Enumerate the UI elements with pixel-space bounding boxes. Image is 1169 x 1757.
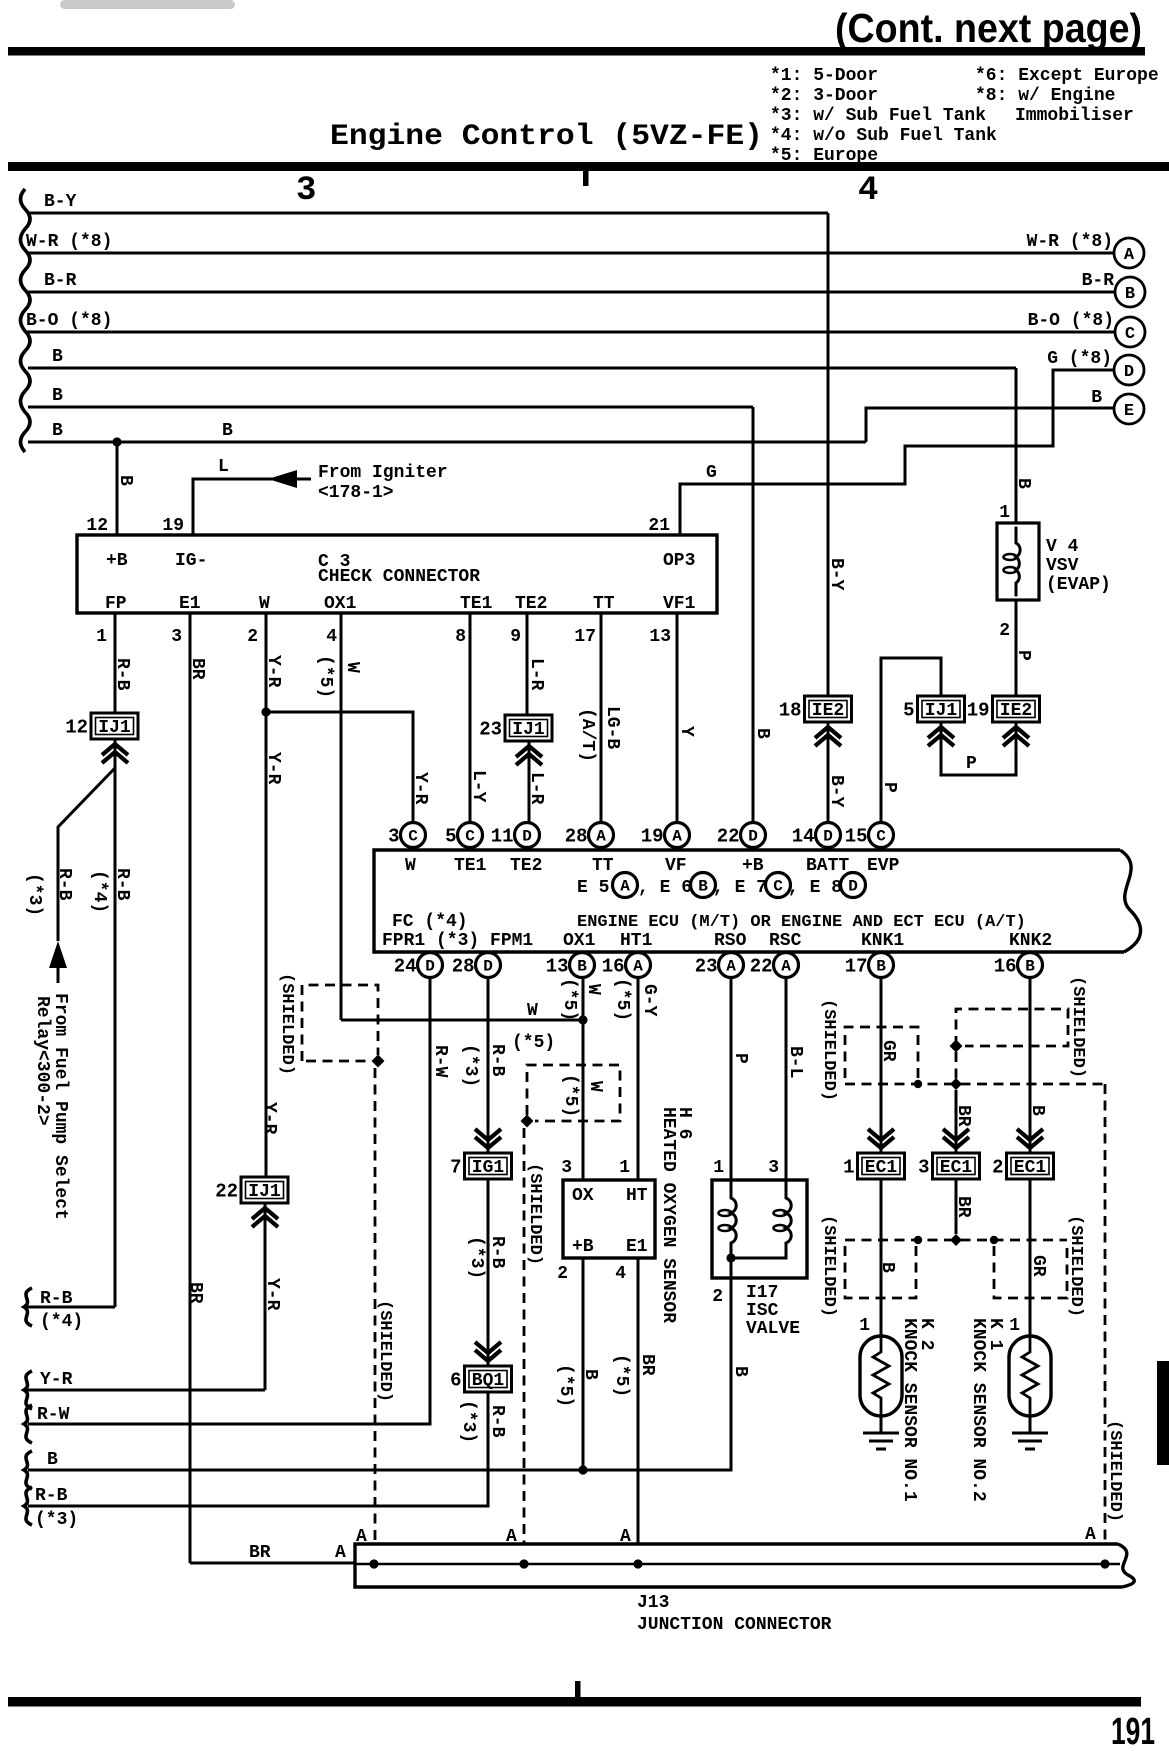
svg-text:TE2: TE2 bbox=[510, 856, 542, 876]
svg-text:Engine Control (5VZ-FE): Engine Control (5VZ-FE) bbox=[330, 120, 763, 154]
chevron of IJ1 pin 5 bbox=[928, 727, 954, 746]
svg-text:(*5): (*5) bbox=[612, 978, 632, 1021]
ECU box wavy right edge bbox=[1120, 850, 1141, 952]
svg-text:2: 2 bbox=[992, 1157, 1003, 1179]
svg-text:3: 3 bbox=[918, 1157, 929, 1179]
svg-text:KNK1: KNK1 bbox=[861, 931, 904, 951]
svg-text:TE1: TE1 bbox=[460, 594, 493, 614]
ECU pin 15 EVP bbox=[845, 823, 894, 848]
svg-text:B: B bbox=[730, 1366, 750, 1377]
svg-text:TT: TT bbox=[593, 594, 615, 614]
svg-text:D: D bbox=[483, 958, 493, 976]
svg-text:VF1: VF1 bbox=[663, 594, 696, 614]
svg-text:A: A bbox=[596, 828, 606, 846]
ECU pin 24 FPR1/FC bbox=[394, 953, 443, 978]
svg-text:C: C bbox=[465, 828, 475, 846]
wire B-R bus line 3 to node B bbox=[28, 291, 1115, 294]
svg-text:16: 16 bbox=[994, 956, 1017, 978]
svg-text:*1: 5-Door: *1: 5-Door bbox=[770, 66, 878, 86]
wire branch to ECU pin 3 W bbox=[266, 712, 413, 823]
connector IG1 (pin 7) bbox=[450, 1153, 511, 1179]
node E bbox=[1114, 394, 1144, 424]
svg-text:B-Y: B-Y bbox=[826, 558, 846, 591]
shield drain dashed line 2 to junction connector bbox=[523, 1128, 526, 1544]
svg-text:22: 22 bbox=[215, 1181, 238, 1203]
wire B-L from ECU 22 to ISC pin 3 bbox=[785, 978, 788, 1180]
wire TT to ECU bbox=[600, 613, 603, 823]
connector BQ1 (pin 6) bbox=[450, 1366, 511, 1392]
ECU pin E6 bbox=[691, 873, 716, 898]
svg-text:RSO: RSO bbox=[714, 931, 747, 951]
connector IJ1 (pin 23) bbox=[479, 715, 552, 741]
svg-text:A: A bbox=[633, 958, 643, 976]
svg-text:B-L: B-L bbox=[785, 1046, 805, 1078]
ECU pin E5 bbox=[613, 873, 638, 898]
svg-text:B: B bbox=[1027, 1105, 1047, 1116]
svg-text:EVP: EVP bbox=[867, 856, 900, 876]
junction inside ISC bbox=[726, 1253, 735, 1262]
shield outline around KNK1 wire upper (dashed) bbox=[845, 1027, 918, 1078]
wire B bus line 6 feeding ECU +B bbox=[28, 406, 753, 409]
svg-text:D: D bbox=[1124, 363, 1134, 382]
svg-text:24: 24 bbox=[394, 956, 417, 978]
shield bus dot c bbox=[914, 1236, 922, 1244]
svg-text:RSC: RSC bbox=[769, 931, 802, 951]
svg-text:(*5): (*5) bbox=[559, 978, 579, 1021]
knock sensor K1 body bbox=[1009, 1336, 1051, 1416]
svg-text:EC1: EC1 bbox=[865, 1158, 898, 1178]
wire R-B (*3) from ECU 28 to IG1 bbox=[487, 978, 490, 1153]
svg-text:+B: +B bbox=[106, 551, 128, 571]
svg-text:D: D bbox=[522, 828, 532, 846]
svg-text:B-R: B-R bbox=[44, 271, 77, 291]
shield outline around OX wire (dashed) bbox=[527, 1065, 620, 1121]
svg-text:2: 2 bbox=[999, 621, 1010, 641]
svg-text:B: B bbox=[1125, 285, 1135, 304]
resistor zigzag K2 bbox=[873, 1336, 889, 1416]
wire BR shield drain upper bbox=[955, 1090, 958, 1153]
svg-text:+B: +B bbox=[742, 856, 764, 876]
wire stub below arrow bbox=[57, 968, 60, 983]
svg-text:C: C bbox=[773, 878, 783, 896]
svg-text:3: 3 bbox=[296, 172, 316, 210]
svg-text:W: W bbox=[405, 856, 416, 876]
J13 internal bus wire bbox=[355, 1563, 1120, 1566]
svg-text:IG1: IG1 bbox=[472, 1158, 505, 1178]
ISC valve I17 box bbox=[712, 1180, 807, 1278]
svg-text:12: 12 bbox=[65, 717, 88, 739]
wire GR from EC1-2 to knock sensor 1 bbox=[1029, 1179, 1032, 1336]
oxygen sensor H6 box bbox=[563, 1180, 655, 1258]
svg-text:I17: I17 bbox=[746, 1283, 778, 1303]
svg-text:R-B: R-B bbox=[35, 1486, 68, 1506]
wire G-Y (*5) from ECU 16 to HT bbox=[637, 978, 640, 1180]
wire Y-R from W pin 2 bbox=[265, 613, 268, 712]
svg-text:1: 1 bbox=[619, 1158, 630, 1178]
top rule 2 bbox=[8, 162, 1169, 171]
svg-text:KNOCK SENSOR NO.2: KNOCK SENSOR NO.2 bbox=[968, 1318, 988, 1502]
continuation mark R-B (*3) bbox=[24, 1487, 32, 1525]
ECU pin E7 bbox=[766, 873, 791, 898]
svg-text:3: 3 bbox=[388, 826, 399, 848]
chevron of IE2 pin 18 bbox=[815, 727, 841, 746]
svg-text:B: B bbox=[1091, 388, 1102, 408]
svg-text:B: B bbox=[222, 421, 233, 441]
svg-text:<178-1>: <178-1> bbox=[318, 483, 394, 503]
svg-text:R-B: R-B bbox=[487, 1044, 507, 1077]
J13 bus dot shield1 bbox=[369, 1559, 378, 1568]
svg-text:BR: BR bbox=[185, 1282, 205, 1304]
svg-text:23: 23 bbox=[695, 956, 718, 978]
svg-text:From Fuel Pump Select: From Fuel Pump Select bbox=[50, 993, 70, 1220]
svg-text:(EVAP): (EVAP) bbox=[1046, 575, 1111, 595]
wire GR from ECU 17 to EC1-1 bbox=[880, 978, 883, 1153]
svg-text:23: 23 bbox=[479, 719, 502, 741]
svg-text:B: B bbox=[752, 728, 772, 739]
svg-text:18: 18 bbox=[779, 700, 802, 722]
svg-text:(*5): (*5) bbox=[555, 1364, 575, 1407]
continuation mark R-B (*4) bbox=[24, 1288, 32, 1326]
solenoid V4 VSV (EVAP) box bbox=[997, 523, 1039, 600]
svg-text:17: 17 bbox=[845, 956, 868, 978]
svg-text:C: C bbox=[408, 828, 418, 846]
svg-text:FC (*4): FC (*4) bbox=[392, 912, 468, 932]
svg-text:B: B bbox=[52, 421, 63, 441]
svg-text:IJ1: IJ1 bbox=[248, 1182, 281, 1202]
svg-text:W: W bbox=[342, 662, 362, 673]
svg-text:Relay<300-2>: Relay<300-2> bbox=[32, 996, 52, 1126]
wire B from EC1-1 to knock sensor 2 bbox=[880, 1179, 883, 1336]
svg-text:G (*8): G (*8) bbox=[1047, 349, 1112, 369]
wire W-R (*8) bus line 2 to node A bbox=[26, 252, 1114, 255]
wire B bus line 7 bbox=[28, 441, 866, 444]
wire L-Y from TE1 pin 8 to ECU bbox=[469, 613, 472, 823]
ground symbol K1 bbox=[1012, 1433, 1048, 1449]
svg-text:W: W bbox=[585, 1081, 605, 1092]
continuation mark R-W bbox=[24, 1405, 32, 1443]
wire R-B from FP pin 1 to IJ1 bbox=[114, 613, 117, 713]
junction B wire to sensor +B wire bbox=[578, 1465, 587, 1474]
svg-text:HT: HT bbox=[626, 1186, 648, 1206]
svg-text:(SHIELDED): (SHIELDED) bbox=[1068, 976, 1087, 1078]
svg-text:W: W bbox=[259, 594, 270, 614]
wire R-B (*3) diagonal branch bbox=[58, 768, 115, 941]
svg-text:*6: Except Europe: *6: Except Europe bbox=[975, 66, 1159, 86]
svg-text:W-R (*8): W-R (*8) bbox=[1027, 232, 1113, 252]
svg-text:4: 4 bbox=[326, 627, 337, 647]
svg-text:D: D bbox=[748, 828, 758, 846]
connector EC1 (pin 1) bbox=[843, 1153, 904, 1179]
rule 2 tick mark bbox=[583, 171, 589, 186]
shield outline around KNK1 wire lower (dashed) bbox=[845, 1246, 916, 1298]
svg-text:D: D bbox=[425, 958, 435, 976]
svg-text:OP3: OP3 bbox=[663, 551, 695, 571]
chevron of EC1-1 bbox=[868, 1129, 894, 1148]
svg-text:B-R: B-R bbox=[1082, 271, 1115, 291]
J13 bus dot BR sensor bbox=[633, 1559, 642, 1568]
svg-text:Y-R: Y-R bbox=[263, 655, 283, 688]
svg-text:R-B: R-B bbox=[487, 1236, 507, 1269]
svg-text:B-O (*8): B-O (*8) bbox=[26, 311, 112, 331]
svg-text:Y-R: Y-R bbox=[263, 752, 283, 785]
wire K2 to ground bbox=[880, 1416, 883, 1433]
svg-text:B: B bbox=[115, 475, 135, 486]
svg-text:(*3): (*3) bbox=[458, 1400, 478, 1443]
node D bbox=[1114, 355, 1144, 385]
svg-text:BR: BR bbox=[953, 1105, 973, 1127]
svg-text:(*3): (*3) bbox=[460, 1044, 480, 1087]
svg-text:W-R (*8): W-R (*8) bbox=[26, 232, 112, 252]
page edge black tab bbox=[1157, 1361, 1169, 1465]
svg-text:HT1: HT1 bbox=[620, 931, 653, 951]
svg-text:B: B bbox=[47, 1450, 58, 1470]
ECU pin 19 VF bbox=[641, 823, 690, 848]
bottom rule tick mark bbox=[575, 1681, 581, 1697]
svg-text:BR: BR bbox=[637, 1354, 657, 1376]
ECU pin 22 RSC bbox=[750, 953, 799, 978]
svg-text:P: P bbox=[879, 782, 899, 793]
svg-text:LG-B: LG-B bbox=[602, 706, 622, 749]
J13 bus dot shield2 bbox=[519, 1559, 528, 1568]
wire R-W from ECU 24 to left edge bbox=[28, 978, 430, 1424]
ECU pin 13 OX1 bbox=[546, 953, 595, 978]
svg-text:Y: Y bbox=[676, 726, 696, 737]
node C bbox=[1115, 317, 1145, 347]
svg-text:, E 7: , E 7 bbox=[713, 878, 767, 898]
wire Y-R below IJ1 22 bbox=[264, 1203, 267, 1390]
svg-text:Y-R: Y-R bbox=[262, 1278, 282, 1311]
svg-text:BR: BR bbox=[249, 1543, 271, 1563]
shield link f to bus bbox=[955, 1052, 958, 1080]
svg-text:22: 22 bbox=[717, 826, 740, 848]
svg-text:16: 16 bbox=[602, 956, 625, 978]
wire B-O (*8) bus line 4 to node C bbox=[26, 331, 1115, 334]
wire BR from E1 pin 3 down to junction connector bbox=[189, 613, 192, 1563]
svg-text:IE2: IE2 bbox=[1000, 701, 1032, 721]
arrowhead from igniter (points left) bbox=[268, 470, 297, 488]
shield junction diamond f bbox=[950, 1040, 963, 1053]
ground symbol K2 bbox=[863, 1433, 899, 1449]
svg-text:V 4: V 4 bbox=[1046, 537, 1079, 557]
wire linking ISC coils bbox=[731, 1252, 786, 1258]
svg-text:VSV: VSV bbox=[1046, 556, 1079, 576]
chevron of IJ1 pin 23 bbox=[516, 746, 542, 765]
svg-text:E1: E1 bbox=[179, 594, 201, 614]
svg-text:E: E bbox=[1124, 402, 1134, 421]
svg-text:KNOCK SENSOR NO.1: KNOCK SENSOR NO.1 bbox=[899, 1318, 919, 1502]
svg-text:(*3): (*3) bbox=[24, 873, 44, 916]
svg-text:C: C bbox=[1125, 325, 1135, 344]
svg-text:1: 1 bbox=[999, 503, 1010, 523]
svg-text:L-R: L-R bbox=[526, 772, 546, 805]
wire W to oxygen sensor OX node bbox=[341, 1019, 583, 1022]
svg-text:ENGINE ECU (M/T) OR ENGINE AN: ENGINE ECU (M/T) OR ENGINE AND ECT ECU (… bbox=[577, 913, 1026, 932]
connector EC1 (pin 3) bbox=[918, 1153, 979, 1179]
svg-text:19: 19 bbox=[641, 826, 664, 848]
svg-text:B-Y: B-Y bbox=[44, 192, 77, 212]
svg-text:11: 11 bbox=[491, 826, 514, 848]
ECU pin 16 KNK2 bbox=[994, 953, 1043, 978]
wire B-Y vertical drop to IE2 bbox=[827, 213, 830, 697]
svg-text:(*3): (*3) bbox=[466, 1236, 486, 1279]
shield drain dashed lower bus bbox=[845, 1239, 1067, 1242]
svg-text:W: W bbox=[583, 984, 603, 995]
ECU pin 23 RSO bbox=[695, 953, 744, 978]
chevron of EC1-3 bbox=[943, 1129, 969, 1148]
svg-text:FP: FP bbox=[105, 594, 127, 614]
svg-text:From Igniter: From Igniter bbox=[318, 463, 448, 483]
ECU pin 3 W bbox=[388, 823, 425, 848]
connector IE2 (pin 18) bbox=[779, 696, 852, 722]
svg-text:VF: VF bbox=[665, 856, 687, 876]
wire P from ECU EVP up to IJ1 5 bbox=[881, 658, 941, 823]
svg-text:BR: BR bbox=[953, 1196, 973, 1218]
wire B from ISC pin 2 to left bus bbox=[28, 1278, 731, 1470]
junction connector J13 box bbox=[355, 1544, 1122, 1587]
shield outline around OX1 wire (dashed) bbox=[302, 985, 378, 1061]
svg-text:13: 13 bbox=[649, 627, 671, 647]
svg-text:R-W: R-W bbox=[37, 1405, 70, 1425]
wire Y-R down to IJ1 22 bbox=[265, 712, 268, 1177]
svg-text:R-B: R-B bbox=[112, 868, 132, 901]
resistor zigzag K1 bbox=[1022, 1336, 1038, 1416]
svg-text:R-B: R-B bbox=[54, 868, 74, 901]
svg-text:7: 7 bbox=[450, 1157, 461, 1179]
svg-text:13: 13 bbox=[546, 956, 569, 978]
svg-text:A: A bbox=[1124, 246, 1135, 265]
svg-text:1: 1 bbox=[96, 627, 107, 647]
svg-text:B-O (*8): B-O (*8) bbox=[1028, 311, 1114, 331]
svg-text:4: 4 bbox=[858, 172, 878, 210]
ECU pin 16 HT1 bbox=[602, 953, 651, 978]
wire P from VSV pin 2 to IE2 19 bbox=[1015, 600, 1018, 697]
chevron of IJ1 pin 22 bbox=[252, 1208, 278, 1227]
svg-text:2: 2 bbox=[557, 1264, 568, 1284]
continuation mark B bbox=[24, 1451, 32, 1489]
wire G staircase from OP3 to node D bbox=[680, 370, 1114, 535]
ECU pin 28 TT bbox=[565, 823, 614, 848]
ECU pin 22 +B bbox=[717, 823, 766, 848]
wire B-Y bus line 1 bbox=[28, 212, 828, 215]
wire Y-R to left edge bbox=[26, 1389, 265, 1392]
svg-text:(*4): (*4) bbox=[89, 870, 109, 913]
wire R-B (*3) IG1 to BQ1 bbox=[487, 1179, 490, 1366]
svg-text:5: 5 bbox=[903, 700, 914, 722]
svg-text:B: B bbox=[698, 878, 708, 896]
svg-text:Y-R: Y-R bbox=[410, 772, 430, 805]
wire B (shield) from ECU 16 KNK2 bbox=[1029, 978, 1032, 1153]
chevron of EC1-2 bbox=[1017, 1129, 1043, 1148]
connector IE2 (pin 19) bbox=[967, 696, 1040, 722]
shield bus dot a bbox=[914, 1080, 922, 1088]
svg-text:28: 28 bbox=[452, 956, 475, 978]
connector EC1 (pin 2) bbox=[992, 1153, 1053, 1179]
shield bus diamond b bbox=[950, 1078, 962, 1090]
wire R-B (*3) from BQ1 to left edge bbox=[28, 1392, 488, 1506]
chevron of BQ1 bbox=[475, 1342, 501, 1361]
svg-text:EC1: EC1 bbox=[1014, 1158, 1047, 1178]
wire line5 B down to VSV pin 1 bbox=[1015, 368, 1018, 523]
svg-text:A: A bbox=[726, 958, 736, 976]
svg-text:J13: J13 bbox=[637, 1593, 669, 1613]
svg-text:, E 8: , E 8 bbox=[788, 878, 842, 898]
svg-text:+B: +B bbox=[572, 1237, 594, 1257]
wire BR shield drain lower bbox=[955, 1179, 958, 1234]
ECU pin 14 BATT bbox=[792, 823, 841, 848]
left page-edge wavy continuation mark for bus wires bbox=[21, 189, 31, 452]
svg-text:C: C bbox=[876, 828, 886, 846]
svg-text:28: 28 bbox=[565, 826, 588, 848]
svg-text:IJ1: IJ1 bbox=[925, 701, 958, 721]
svg-text:14: 14 bbox=[792, 826, 815, 848]
wire common ISC to pin 2 bbox=[730, 1258, 733, 1278]
svg-text:B: B bbox=[52, 386, 63, 406]
svg-text:3: 3 bbox=[171, 627, 182, 647]
svg-text:3: 3 bbox=[768, 1158, 779, 1178]
node B bbox=[1115, 277, 1145, 307]
svg-text:A: A bbox=[1085, 1525, 1096, 1545]
shield bus dot e bbox=[990, 1236, 998, 1244]
shield drain dashed upper bus bbox=[845, 1083, 1105, 1086]
junction Y-R branch bbox=[261, 707, 270, 716]
svg-text:(SHIELDED): (SHIELDED) bbox=[525, 1163, 544, 1265]
svg-text:Y-R: Y-R bbox=[259, 1102, 279, 1135]
svg-text:(A/T): (A/T) bbox=[577, 708, 597, 762]
svg-text:P: P bbox=[1013, 650, 1033, 661]
svg-text:Immobiliser: Immobiliser bbox=[1015, 106, 1134, 126]
top rule 1 bbox=[8, 47, 1145, 56]
svg-text:(SHIELDED): (SHIELDED) bbox=[819, 999, 838, 1101]
svg-text:E1: E1 bbox=[626, 1237, 648, 1257]
svg-text:R-W: R-W bbox=[430, 1045, 450, 1078]
svg-text:6: 6 bbox=[450, 1370, 461, 1392]
junction line7 to check connector +B bbox=[112, 437, 121, 446]
shield bus diamond d bbox=[950, 1234, 962, 1246]
svg-text:TT: TT bbox=[592, 856, 614, 876]
wire K1 to ground bbox=[1029, 1416, 1032, 1433]
chevron of IJ1 pin 12 bbox=[102, 744, 128, 763]
page top-left grey tab mark bbox=[60, 0, 235, 9]
wire B from junction down to pin 12 bbox=[116, 442, 119, 535]
ECU pin E8 bbox=[841, 873, 866, 898]
svg-text:OX: OX bbox=[572, 1186, 594, 1206]
svg-text:B: B bbox=[580, 1369, 600, 1380]
svg-text:A: A bbox=[335, 1543, 346, 1563]
VSV coil symbol bbox=[1016, 527, 1020, 597]
svg-text:R-B: R-B bbox=[112, 658, 132, 691]
svg-text:1: 1 bbox=[859, 1316, 870, 1336]
svg-text:2: 2 bbox=[712, 1287, 723, 1307]
svg-text:A: A bbox=[620, 1527, 631, 1547]
svg-text:HEATED OXYGEN SENSOR: HEATED OXYGEN SENSOR bbox=[658, 1107, 678, 1323]
svg-text:L: L bbox=[218, 457, 229, 477]
svg-text:OX1: OX1 bbox=[324, 594, 357, 614]
node A bbox=[1114, 238, 1144, 268]
J13 bus dot shield3 bbox=[1100, 1559, 1109, 1568]
wire Y from VF1 to ECU bbox=[676, 613, 679, 823]
svg-text:KNK2: KNK2 bbox=[1009, 931, 1052, 951]
svg-text:22: 22 bbox=[750, 956, 773, 978]
svg-text:ISC: ISC bbox=[746, 1301, 779, 1321]
svg-text:(*5): (*5) bbox=[315, 655, 335, 698]
svg-text:D: D bbox=[848, 878, 858, 896]
svg-text:FPR1 (*3) FPM1: FPR1 (*3) FPM1 bbox=[382, 931, 533, 951]
J13 wavy right edge bbox=[1118, 1544, 1134, 1587]
svg-text:IJ1: IJ1 bbox=[98, 718, 131, 738]
svg-text:B-Y: B-Y bbox=[826, 775, 846, 808]
svg-text:BR: BR bbox=[187, 658, 207, 680]
svg-text:B: B bbox=[877, 1262, 897, 1273]
